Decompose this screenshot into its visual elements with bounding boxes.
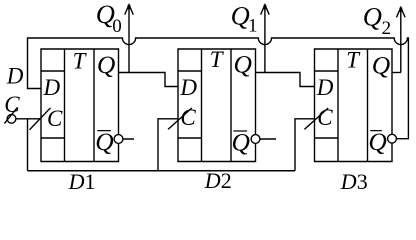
- svg-text:C: C: [47, 106, 63, 131]
- svg-text:Q: Q: [234, 49, 252, 78]
- svg-text:D1: D1: [68, 169, 96, 192]
- svg-text:Q: Q: [232, 128, 250, 157]
- svg-text:Q: Q: [372, 51, 390, 80]
- svg-text:D3: D3: [340, 169, 368, 192]
- svg-text:Q: Q: [95, 127, 113, 156]
- svg-text:C: C: [180, 105, 196, 130]
- svg-text:T: T: [73, 49, 88, 74]
- svg-text:1: 1: [248, 16, 258, 37]
- svg-text:Q: Q: [231, 1, 250, 31]
- svg-text:C: C: [4, 92, 20, 117]
- svg-text:2: 2: [382, 18, 392, 39]
- svg-text:Q: Q: [363, 2, 382, 32]
- svg-text:T: T: [346, 48, 361, 73]
- svg-text:D: D: [316, 75, 334, 100]
- svg-text:D2: D2: [204, 168, 232, 192]
- svg-text:D: D: [43, 75, 61, 100]
- svg-text:Q: Q: [97, 50, 115, 79]
- svg-text:D: D: [6, 63, 24, 88]
- svg-text:Q: Q: [368, 127, 386, 156]
- svg-text:0: 0: [112, 16, 122, 37]
- svg-text:C: C: [317, 105, 333, 130]
- svg-text:D: D: [179, 75, 197, 100]
- svg-text:T: T: [210, 47, 225, 72]
